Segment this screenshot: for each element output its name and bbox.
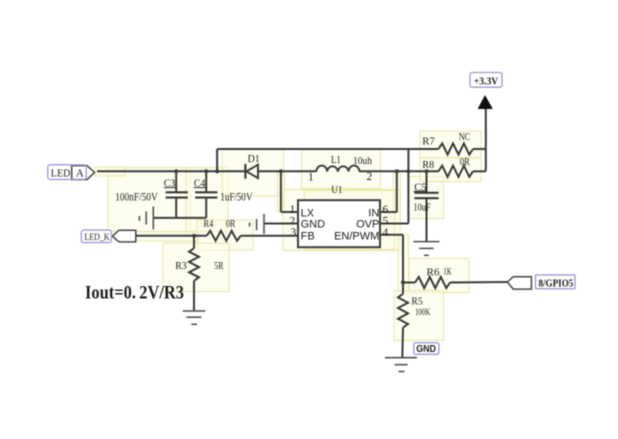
capacitor C3 — [115, 169, 188, 218]
svg-text:8/GPIO5: 8/GPIO5 — [539, 279, 574, 290]
inductor L1 — [308, 154, 373, 184]
svg-text:R3: R3 — [175, 260, 187, 272]
svg-text:+3.3V: +3.3V — [474, 76, 499, 87]
svg-text:6: 6 — [383, 204, 389, 216]
wire OVP pin 5 riser to output bus — [380, 149, 409, 224]
svg-text:10uF: 10uF — [413, 202, 430, 213]
ground (capacitors, rotated) — [139, 207, 153, 230]
wire LX pin 1 riser — [279, 169, 298, 212]
capacitor C5 — [413, 171, 438, 241]
svg-text:R5: R5 — [411, 295, 423, 307]
svg-text:1uF/50V: 1uF/50V — [220, 192, 253, 204]
svg-text:U1: U1 — [331, 184, 342, 196]
capacitor C4 — [194, 169, 253, 218]
svg-text:10uh: 10uh — [353, 155, 372, 167]
svg-text:A: A — [76, 168, 84, 180]
svg-text:GND: GND — [301, 219, 326, 231]
wire D1 anode to L1 — [258, 170, 316, 172]
svg-text:1: 1 — [290, 204, 296, 216]
wire EN/PWM pin 4 to R6/R5 — [380, 235, 405, 294]
svg-text:D1: D1 — [248, 153, 260, 165]
svg-text:L1: L1 — [331, 154, 341, 166]
resistor R3 — [175, 236, 223, 310]
resistor R8 — [422, 157, 486, 177]
svg-text:1: 1 — [308, 171, 314, 183]
svg-text:EN/PWM: EN/PWM — [334, 230, 379, 242]
op-amp / IC U1 — [290, 184, 389, 247]
svg-text:100nF/50V: 100nF/50V — [115, 192, 158, 204]
ground (U1 GND pin, rotated) — [250, 214, 264, 234]
wire L1 to R8 / VIN net — [359, 169, 438, 173]
svg-text:OVP: OVP — [356, 219, 379, 231]
svg-text:R6: R6 — [427, 267, 440, 279]
wire riser to top output wire — [215, 149, 219, 173]
svg-text:1K: 1K — [443, 268, 451, 278]
resistor R6 — [403, 267, 452, 288]
svg-text:FB: FB — [301, 230, 315, 242]
text Iout formula — [85, 283, 184, 303]
wire IN pin 6 riser — [380, 171, 397, 212]
label GND — [414, 343, 439, 355]
svg-text:LED: LED — [51, 168, 71, 180]
power +3.3V — [470, 73, 502, 172]
svg-text:3: 3 — [291, 227, 297, 239]
wire capacitors to ground — [154, 217, 207, 219]
wire LED_K to R4 — [136, 234, 207, 238]
svg-text:R4: R4 — [204, 219, 214, 230]
wire top output bus — [217, 148, 438, 150]
svg-text:0R: 0R — [460, 157, 470, 168]
wire output net: LED_A to D1 cathode — [97, 170, 246, 172]
wire R6 to port 8/GPIO5 — [450, 281, 507, 284]
ground (R5) — [385, 358, 417, 372]
ground (C5) — [413, 242, 439, 256]
port LED_K — [81, 230, 135, 243]
svg-text:R8: R8 — [422, 159, 434, 171]
svg-text:LED_K: LED_K — [84, 233, 110, 243]
svg-text:5: 5 — [383, 216, 389, 228]
svg-text:GND: GND — [416, 344, 436, 355]
port LED_A — [48, 165, 95, 180]
resistor R5 — [398, 294, 430, 358]
svg-text:NC: NC — [459, 132, 471, 143]
svg-text:2: 2 — [367, 171, 373, 183]
svg-text:0R: 0R — [226, 219, 236, 230]
wire GND pin 2 stub — [264, 223, 298, 225]
resistor R4 — [204, 219, 241, 241]
svg-text:100K: 100K — [415, 308, 430, 318]
ground (R3) — [183, 311, 206, 324]
svg-text:4: 4 — [383, 227, 389, 239]
resistor R7 — [422, 132, 486, 155]
svg-text:Iout=0. 2V/R3: Iout=0. 2V/R3 — [85, 283, 184, 303]
svg-text:5R: 5R — [214, 261, 223, 272]
wire R4 to FB pin 3 — [241, 235, 298, 237]
port 8/GPIO5 — [507, 275, 575, 290]
svg-text:2: 2 — [290, 216, 296, 228]
diode D1 — [245, 153, 259, 179]
svg-text:R7: R7 — [422, 135, 435, 147]
